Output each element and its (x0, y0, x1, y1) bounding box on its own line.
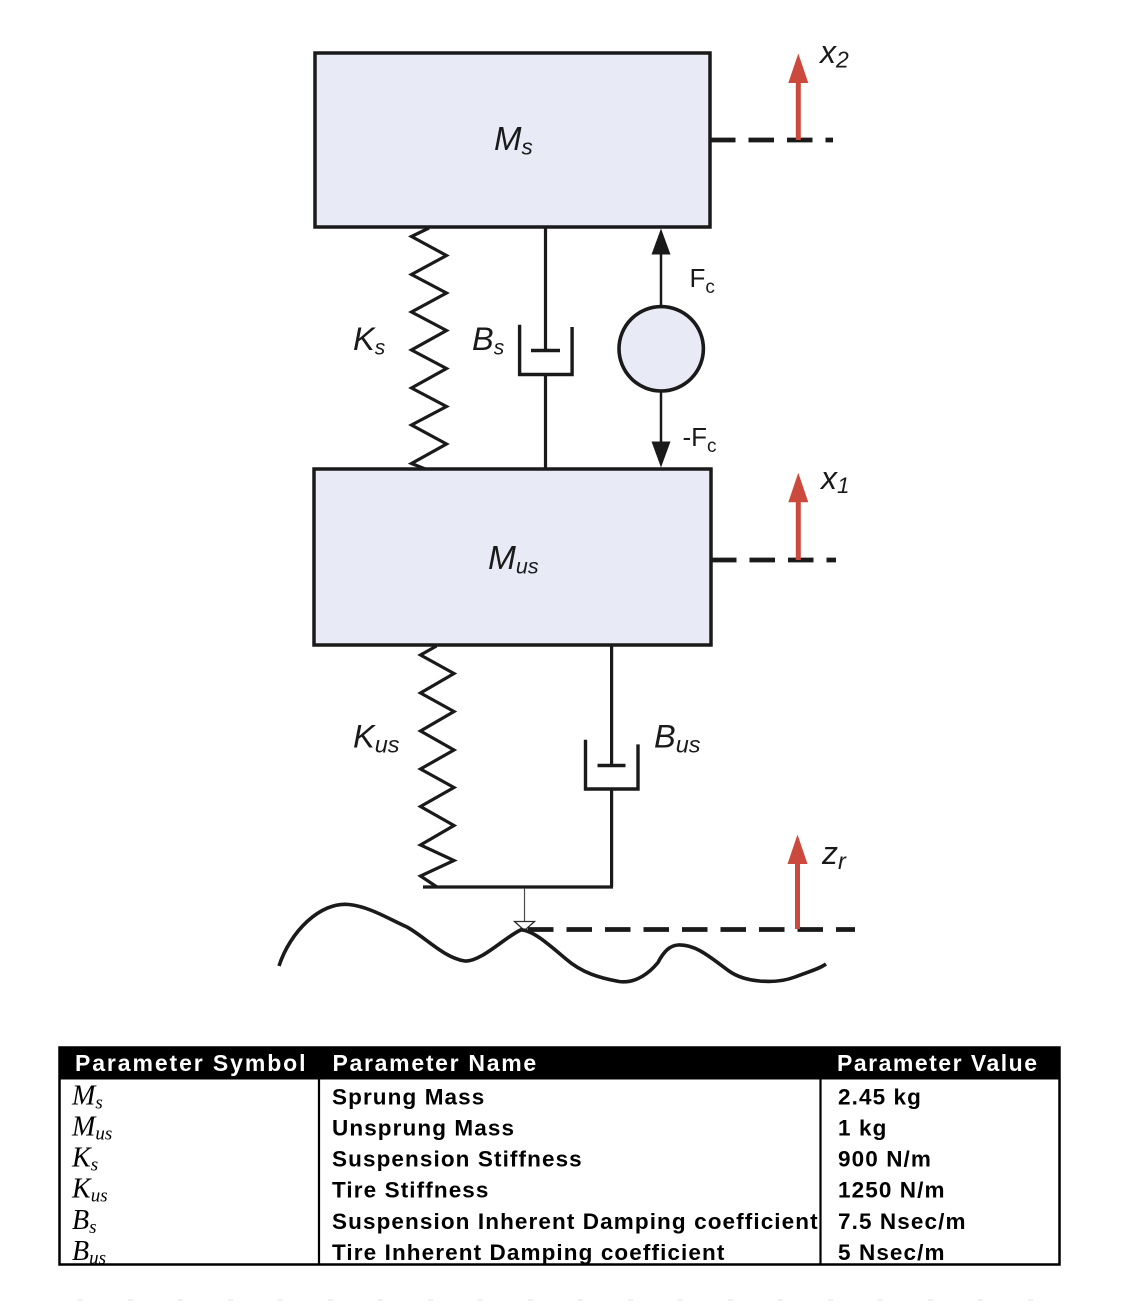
damper Bus lower rod (610, 789, 613, 887)
datum dashed line x1 (711, 558, 836, 563)
svg-text:2.45 kg: 2.45 kg (838, 1084, 922, 1109)
damper Bus cup (586, 740, 639, 789)
svg-text:900 N/m: 900 N/m (838, 1147, 932, 1172)
svg-text:Ms: Ms (71, 1080, 103, 1113)
svg-text:Bs: Bs (472, 321, 505, 360)
spring Ks (412, 228, 447, 470)
connecting bar (423, 885, 613, 888)
force arrow Fc head (652, 229, 671, 255)
damper Bs piston (531, 349, 560, 353)
svg-text:Parameter Symbol: Parameter Symbol (75, 1050, 307, 1076)
mass block Ms (315, 53, 710, 227)
svg-text:Mus: Mus (71, 1112, 112, 1145)
svg-text:Sprung Mass: Sprung Mass (332, 1084, 485, 1109)
svg-text:Unsprung Mass: Unsprung Mass (332, 1116, 515, 1141)
svg-text:Parameter Name: Parameter Name (333, 1050, 538, 1076)
svg-text:Kus: Kus (71, 1174, 108, 1207)
table column separator 2 (819, 1080, 821, 1265)
svg-text:x1: x1 (819, 460, 850, 498)
svg-text:Ks: Ks (71, 1143, 98, 1176)
table column separator 1 (318, 1080, 320, 1265)
mass block Mus (314, 469, 711, 645)
displacement arrow x2 head (788, 54, 808, 84)
displacement arrow x2 stem (796, 81, 801, 140)
force arrow -Fc head (652, 442, 671, 468)
svg-text:5 Nsec/m: 5 Nsec/m (838, 1240, 946, 1265)
damper Bus piston (598, 764, 626, 768)
svg-text:zr: zr (821, 835, 847, 874)
svg-text:Suspension Inherent Damping co: Suspension Inherent Damping coefficient (332, 1209, 819, 1234)
datum dashed line zr (528, 927, 855, 932)
table header band (59, 1047, 1061, 1080)
displacement arrow zr stem (795, 862, 800, 929)
force arrow -Fc stem (660, 391, 663, 443)
actuator circle (619, 307, 703, 391)
svg-text:Bus: Bus (654, 719, 701, 758)
road wave (279, 904, 826, 982)
damper Bs cup (520, 325, 573, 375)
svg-text:-Fc: -Fc (683, 422, 717, 457)
svg-text:Tire Inherent Damping coeffici: Tire Inherent Damping coefficient (332, 1240, 725, 1265)
svg-text:Tire Stiffness: Tire Stiffness (332, 1178, 490, 1203)
svg-text:Bs: Bs (72, 1205, 97, 1238)
displacement arrow x1 head (788, 473, 808, 502)
svg-text:Kus: Kus (353, 719, 400, 758)
svg-text:Bus: Bus (72, 1236, 106, 1269)
displacement arrow zr head (788, 835, 808, 865)
svg-text:1 kg: 1 kg (838, 1116, 887, 1141)
damper Bs rod (544, 227, 547, 351)
force arrow Fc stem (660, 252, 663, 307)
faint cropped caption remnants (78, 1299, 1065, 1301)
damper Bs lower rod (544, 375, 547, 470)
contact arrow stem (524, 888, 526, 921)
contact arrow open head (515, 922, 535, 931)
svg-text:Suspension Stiffness: Suspension Stiffness (332, 1147, 583, 1172)
svg-text:1250 N/m: 1250 N/m (838, 1178, 946, 1203)
damper Bus rod (610, 645, 613, 766)
svg-text:Fc: Fc (690, 263, 715, 298)
svg-text:7.5 Nsec/m: 7.5 Nsec/m (838, 1209, 967, 1234)
table outer border (60, 1048, 1060, 1265)
svg-text:Parameter Value: Parameter Value (837, 1050, 1039, 1076)
datum dashed line x2 (710, 138, 833, 143)
svg-text:Ks: Ks (353, 321, 386, 360)
spring Kus (421, 646, 455, 887)
displacement arrow x1 stem (796, 500, 801, 560)
svg-text:x2: x2 (818, 34, 849, 73)
